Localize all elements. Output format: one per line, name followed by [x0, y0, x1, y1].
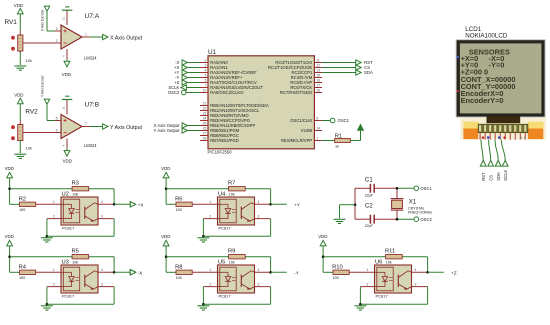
svg-text:21: 21 — [203, 102, 207, 106]
svg-text:NOKIA100LCD: NOKIA100LCD — [465, 32, 507, 39]
svg-text:100: 100 — [176, 208, 182, 212]
svg-text:R10: R10 — [332, 265, 343, 271]
svg-text:1: 1 — [209, 268, 211, 272]
svg-text:PC817: PC817 — [62, 226, 75, 231]
svg-text:7: 7 — [85, 122, 87, 126]
svg-text:U3: U3 — [62, 260, 69, 266]
svg-text:10k: 10k — [386, 261, 392, 265]
svg-text:VDD: VDD — [62, 72, 71, 77]
svg-text:3: 3 — [56, 27, 58, 31]
svg-text:3: 3 — [101, 215, 103, 219]
svg-text:4: 4 — [101, 268, 103, 272]
svg-text:1: 1 — [209, 200, 211, 204]
svg-text:15: 15 — [316, 74, 320, 78]
svg-text:5: 5 — [56, 117, 58, 121]
svg-text:U7:B: U7:B — [85, 102, 100, 109]
svg-text:RB7/KBI3/PGD: RB7/KBI3/PGD — [210, 138, 239, 143]
svg-text:U6: U6 — [375, 260, 382, 266]
svg-text:R5: R5 — [72, 249, 79, 255]
svg-text:14: 14 — [316, 127, 320, 131]
svg-text:R3: R3 — [72, 181, 79, 187]
svg-text:EncoderY=0: EncoderY=0 — [461, 96, 504, 105]
svg-text:PC817: PC817 — [219, 226, 232, 231]
svg-text:RC7/RX/DT/SDO: RC7/RX/DT/SDO — [280, 90, 313, 95]
svg-text:25: 25 — [203, 122, 207, 126]
svg-text:4: 4 — [101, 200, 103, 204]
svg-text:OSC2: OSC2 — [420, 217, 432, 222]
svg-text:VDD: VDD — [63, 159, 72, 164]
svg-text:VDD: VDD — [161, 234, 170, 239]
svg-text:VDD: VDD — [5, 166, 14, 171]
svg-text:CS: CS — [488, 175, 493, 181]
svg-text:2: 2 — [56, 39, 58, 43]
svg-text:OSC1: OSC1 — [420, 186, 432, 191]
svg-text:10: 10 — [203, 89, 207, 93]
svg-text:10k: 10k — [229, 193, 235, 197]
svg-text:X Axis Output: X Axis Output — [110, 35, 143, 41]
svg-text:4: 4 — [258, 200, 260, 204]
svg-text:LM324: LM324 — [84, 143, 97, 148]
svg-text:R1: R1 — [335, 134, 342, 140]
svg-text:FREQ=20MHz: FREQ=20MHz — [408, 211, 432, 215]
svg-text:SDA: SDA — [496, 172, 501, 181]
svg-text:X Axis Encoder: X Axis Encoder — [41, 8, 45, 31]
svg-text:R9: R9 — [228, 249, 235, 255]
svg-text:10k: 10k — [72, 261, 78, 265]
svg-text:11: 11 — [62, 106, 66, 109]
svg-text:-X: -X — [138, 270, 143, 275]
svg-text:4: 4 — [258, 268, 260, 272]
svg-text:OSC1/CLKI: OSC1/CLKI — [290, 118, 312, 123]
svg-text:R7: R7 — [228, 181, 235, 187]
svg-text:22: 22 — [203, 107, 207, 111]
svg-text:10k: 10k — [26, 58, 32, 63]
svg-text:18: 18 — [316, 89, 320, 93]
svg-text:R8: R8 — [175, 265, 182, 271]
svg-text:2: 2 — [209, 283, 211, 287]
svg-text:26: 26 — [203, 127, 207, 131]
svg-text:PIC18F2550: PIC18F2550 — [208, 150, 233, 155]
svg-text:1: 1 — [53, 268, 55, 272]
svg-text:LM324: LM324 — [84, 55, 97, 60]
svg-text:RV2: RV2 — [25, 108, 38, 115]
svg-text:16: 16 — [316, 79, 320, 83]
svg-text:RES/MCLR/VPP: RES/MCLR/VPP — [281, 138, 312, 143]
svg-text:24: 24 — [203, 117, 207, 121]
svg-text:2: 2 — [366, 283, 368, 287]
svg-text:2: 2 — [53, 215, 55, 219]
svg-text:13: 13 — [316, 69, 320, 73]
svg-text:1: 1 — [366, 268, 368, 272]
svg-text:28: 28 — [203, 137, 207, 141]
svg-text:100: 100 — [333, 276, 339, 280]
svg-text:Y Axis Output: Y Axis Output — [154, 128, 181, 133]
svg-text:3: 3 — [415, 283, 417, 287]
svg-text:1k: 1k — [335, 145, 339, 149]
svg-text:7: 7 — [205, 84, 207, 88]
svg-text:4: 4 — [415, 268, 417, 272]
svg-text:PC817: PC817 — [219, 294, 232, 299]
svg-text:11: 11 — [62, 17, 66, 20]
svg-text:U1: U1 — [208, 49, 217, 56]
svg-text:VDD: VDD — [318, 234, 327, 239]
svg-text:22pF: 22pF — [365, 194, 374, 198]
svg-text:2: 2 — [209, 215, 211, 219]
svg-text:R6: R6 — [175, 197, 182, 203]
svg-text:R4: R4 — [19, 265, 27, 271]
svg-text:1: 1 — [53, 200, 55, 204]
svg-text:3: 3 — [101, 283, 103, 287]
svg-text:3: 3 — [258, 283, 260, 287]
svg-text:R11: R11 — [385, 249, 395, 255]
svg-text:SDA: SDA — [364, 70, 373, 75]
svg-text:2: 2 — [53, 283, 55, 287]
svg-text:PC817: PC817 — [376, 294, 389, 299]
svg-text:U7:A: U7:A — [85, 13, 100, 20]
svg-text:+X: +X — [138, 202, 144, 207]
svg-text:10k: 10k — [229, 261, 235, 265]
svg-text:U5: U5 — [218, 260, 225, 266]
svg-text:11: 11 — [316, 59, 320, 63]
svg-text:27: 27 — [203, 132, 207, 136]
svg-text:12: 12 — [316, 64, 320, 68]
svg-text:5: 5 — [205, 74, 207, 78]
svg-text:100: 100 — [19, 208, 25, 212]
svg-text:OSC2: OSC2 — [168, 90, 180, 95]
svg-text:10k: 10k — [26, 146, 32, 151]
svg-text:10k: 10k — [72, 193, 78, 197]
svg-text:RST: RST — [481, 172, 486, 181]
svg-text:U2: U2 — [62, 192, 69, 198]
svg-text:6: 6 — [56, 129, 58, 133]
svg-text:C2: C2 — [365, 204, 373, 210]
svg-text:PC817: PC817 — [62, 294, 75, 299]
svg-text:4: 4 — [205, 69, 207, 73]
svg-text:VDD: VDD — [14, 3, 23, 8]
svg-text:6: 6 — [205, 79, 207, 83]
svg-text:+Z: +Z — [451, 270, 457, 275]
svg-text:-Y: -Y — [294, 270, 299, 275]
svg-text:X1: X1 — [409, 200, 417, 206]
svg-text:9: 9 — [316, 117, 318, 121]
svg-text:100: 100 — [19, 276, 25, 280]
svg-text:VDD: VDD — [161, 166, 170, 171]
svg-text:R2: R2 — [19, 197, 26, 203]
svg-text:VDD: VDD — [5, 234, 14, 239]
svg-text:VUSB: VUSB — [301, 128, 313, 133]
svg-text:SCLK: SCLK — [503, 170, 508, 181]
svg-text:3: 3 — [258, 215, 260, 219]
svg-text:23: 23 — [203, 112, 207, 116]
svg-text:OSC1: OSC1 — [338, 118, 350, 123]
svg-text:22pF: 22pF — [365, 224, 374, 228]
svg-text:1: 1 — [85, 33, 87, 37]
svg-text:+Y: +Y — [294, 202, 300, 207]
svg-text:100: 100 — [176, 276, 182, 280]
svg-text:RA6/OSC2/CLKO: RA6/OSC2/CLKO — [210, 90, 244, 95]
svg-text:U4: U4 — [218, 192, 226, 198]
svg-text:1: 1 — [316, 137, 318, 141]
svg-text:Y Axis Encoder: Y Axis Encoder — [41, 75, 45, 97]
svg-text:2: 2 — [205, 59, 207, 63]
svg-text:Y Axis Output: Y Axis Output — [110, 125, 143, 131]
svg-text:17: 17 — [316, 84, 320, 88]
svg-text:C1: C1 — [365, 177, 373, 183]
svg-text:VDD: VDD — [14, 92, 23, 97]
svg-text:3: 3 — [205, 64, 207, 68]
svg-text:RV1: RV1 — [5, 19, 18, 26]
